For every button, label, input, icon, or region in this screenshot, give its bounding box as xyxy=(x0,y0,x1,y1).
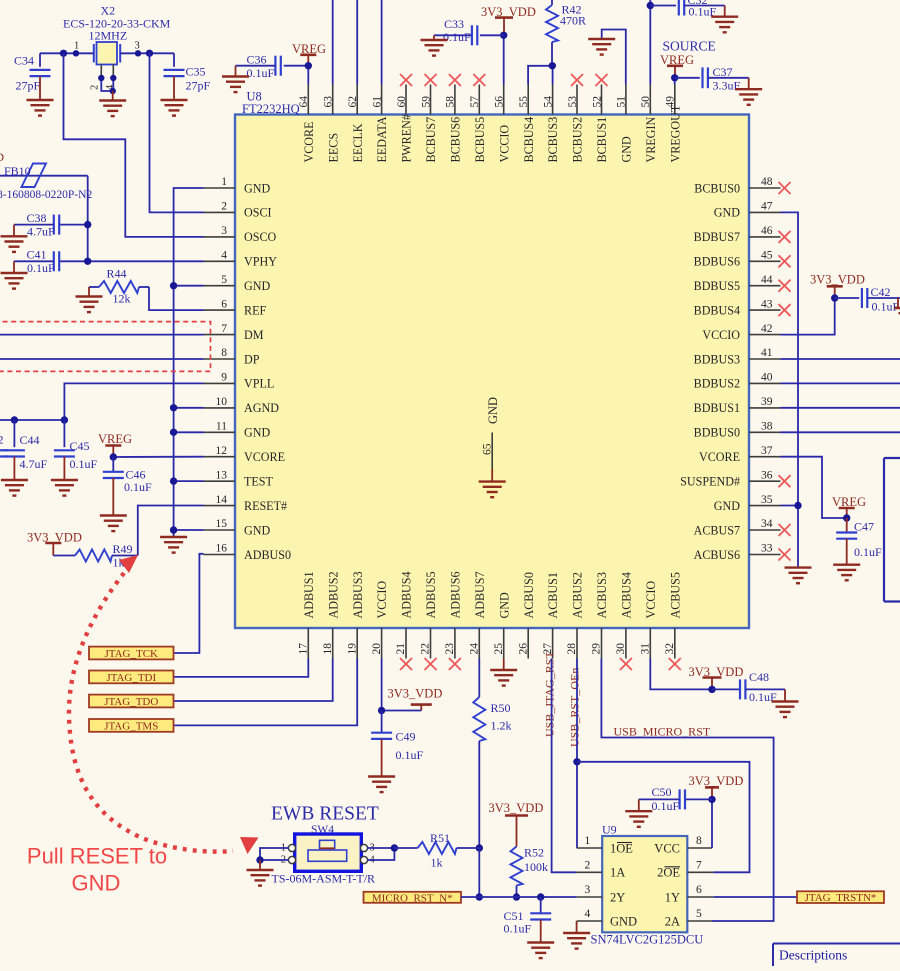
svg-text:C36: C36 xyxy=(247,53,267,67)
svg-text:28: 28 xyxy=(566,643,578,655)
U8 pin 9 VPLL (left) xyxy=(204,372,275,391)
wire U8 pin38 BDBUS0 off right xyxy=(781,431,900,433)
U8 pin 23 ADBUS6 (bottom) xyxy=(444,571,462,670)
svg-text:USB_JTAG_RST: USB_JTAG_RST xyxy=(542,651,556,737)
capacitor C51 0.1uF xyxy=(504,897,552,943)
U8 pin 14 RESET# (left) xyxy=(204,494,288,513)
port JTAG_TCK xyxy=(89,647,174,660)
U9 pin 6 1Y xyxy=(665,884,714,904)
svg-text:5: 5 xyxy=(696,908,702,920)
svg-text:C49: C49 xyxy=(396,730,416,744)
U9 pin 8 VCC xyxy=(654,835,712,855)
wire DM to U8 pin7 xyxy=(0,334,204,336)
power 3V3_VDD (C33) xyxy=(481,5,536,35)
svg-text:0.1uF: 0.1uF xyxy=(443,30,471,44)
capacitor (edge, partial) xyxy=(0,432,8,456)
U8 pin 61 EEDATA (top) xyxy=(371,85,389,163)
svg-text:C47: C47 xyxy=(854,520,874,534)
svg-text:18: 18 xyxy=(322,643,334,655)
svg-text:BDBUS6: BDBUS6 xyxy=(694,255,740,269)
svg-text:VPHY: VPHY xyxy=(244,255,277,269)
svg-text:ACBUS4: ACBUS4 xyxy=(620,572,634,618)
wire crystal left node to C34 xyxy=(40,52,94,54)
red annotation arrow (dotted) xyxy=(69,573,233,852)
U8 pin 26 ACBUS0 (bottom) xyxy=(517,572,535,658)
U8 pin 58 BCBUS6 (top) xyxy=(445,74,463,163)
resistor R44 12k xyxy=(89,267,149,306)
svg-text:42: 42 xyxy=(761,323,773,335)
wire FB10 to pin4 node xyxy=(87,176,89,262)
U8 pin 2 OSCI (left) xyxy=(204,201,272,220)
junction R42/pin54 xyxy=(549,62,556,69)
U8 pin 15 GND (left) xyxy=(204,518,271,537)
port JTAG_TDI xyxy=(89,671,174,684)
wire pin5 GND xyxy=(174,285,204,287)
capacitor C32 0.1uF (top edge) xyxy=(650,0,724,19)
svg-text:1: 1 xyxy=(221,176,227,188)
power 3V3_VDD (C49) xyxy=(382,687,443,711)
svg-text:31: 31 xyxy=(640,643,652,655)
svg-text:BCBUS4: BCBUS4 xyxy=(522,117,536,163)
svg-text:R50: R50 xyxy=(491,701,511,715)
svg-text:USB_MICRO_RST: USB_MICRO_RST xyxy=(614,725,711,739)
svg-text:4.7uF: 4.7uF xyxy=(27,224,55,238)
U8 pin 63 EECS (top) xyxy=(323,85,341,163)
resistor R52 100k xyxy=(511,846,549,898)
junction pin50/C32 xyxy=(647,2,654,9)
U9 pin 7 2OE xyxy=(657,859,713,879)
svg-text:50: 50 xyxy=(640,96,652,108)
wire pin13 TEST xyxy=(174,480,204,482)
U8 pin 46 BDBUS7 (right) xyxy=(694,225,791,244)
svg-text:SUSPEND#: SUSPEND# xyxy=(680,475,740,489)
crystal X2 12MHZ xyxy=(63,4,171,91)
U8 pin 52 BCBUS1 (top) xyxy=(591,74,609,163)
ground (C45) xyxy=(51,480,78,496)
wire 3V3 to U9 pin8 VCC xyxy=(711,799,713,848)
ground (pin 25) xyxy=(490,670,517,686)
ground (U9 pin4) xyxy=(563,933,590,949)
svg-text:34: 34 xyxy=(761,518,773,530)
svg-text:35: 35 xyxy=(761,494,773,506)
wire U8 pin49 VREGOUT to VREG/C37 xyxy=(674,78,676,85)
wire U8 pin16 ADBUS0 to JTAG_TCK xyxy=(174,554,204,653)
U8 pin 6 REF (left) xyxy=(204,298,267,317)
svg-text:VCCIO: VCCIO xyxy=(702,328,740,342)
U8 pin 53 BCBUS2 (top) xyxy=(567,74,585,163)
svg-text:14: 14 xyxy=(216,494,228,506)
svg-text:2A: 2A xyxy=(665,914,680,928)
svg-text:19: 19 xyxy=(346,643,358,655)
wire U8 pin47 GND to right GND bus xyxy=(781,212,799,567)
svg-text:GND: GND xyxy=(610,914,637,928)
svg-text:EECLK: EECLK xyxy=(351,123,365,162)
svg-text:EWB RESET: EWB RESET xyxy=(271,804,379,825)
U8 pin 11 GND (left) xyxy=(204,421,271,440)
svg-text:BDBUS0: BDBUS0 xyxy=(694,426,740,440)
ground (left GND bus) xyxy=(160,537,187,553)
svg-text:C45: C45 xyxy=(70,439,90,453)
svg-text:12k: 12k xyxy=(113,292,131,306)
svg-text:AGND: AGND xyxy=(244,401,279,415)
U8 pin 41 BDBUS3 (right) xyxy=(694,347,781,366)
svg-text:27pF: 27pF xyxy=(186,79,211,93)
svg-text:ADBUS6: ADBUS6 xyxy=(449,571,463,618)
svg-text:3V3_VDD: 3V3_VDD xyxy=(388,687,443,701)
U8 pin 20 VCCIO (bottom) xyxy=(371,581,389,659)
power 3V3_VDD (R49) xyxy=(27,531,82,556)
ground (C42, clipped at edge) xyxy=(895,298,900,324)
svg-text:51: 51 xyxy=(616,96,628,108)
junction VREG/C46 xyxy=(110,453,117,460)
wire U8 pin63 EECS up xyxy=(332,0,334,85)
svg-text:C50: C50 xyxy=(652,785,672,799)
wire U8 pin24 ADBUS7 down xyxy=(478,659,480,698)
junction pin10 xyxy=(170,404,177,411)
svg-text:GND: GND xyxy=(486,397,500,424)
wire crystal pins 2,4 to ground xyxy=(101,78,113,91)
note box (right edge) xyxy=(884,458,900,602)
svg-text:C34: C34 xyxy=(14,54,34,68)
capacitor C42 0.1uF xyxy=(835,285,900,314)
svg-text:16: 16 xyxy=(216,543,228,555)
wire U8 pin29 ACBUS3 to U9 pin5 xyxy=(601,659,773,922)
wire pin10 AGND xyxy=(174,407,204,409)
capacitor C38 4.7uF xyxy=(14,211,88,238)
svg-text:FB10: FB10 xyxy=(4,164,31,178)
svg-text:SW4: SW4 xyxy=(311,824,334,836)
svg-text:BDBUS7: BDBUS7 xyxy=(694,230,740,244)
svg-text:20: 20 xyxy=(371,643,383,655)
junction OEn split xyxy=(573,758,580,765)
power 3V3_VDD (C42) xyxy=(810,273,865,299)
svg-text:C41: C41 xyxy=(27,248,47,262)
svg-text:53: 53 xyxy=(567,96,579,108)
svg-text:EECS: EECS xyxy=(326,133,340,163)
junction 3V3/C33 xyxy=(500,32,507,39)
wire SW4 pins 1,2 to ground xyxy=(260,848,288,860)
U8 pin 35 GND (right) xyxy=(714,494,781,513)
svg-text:41: 41 xyxy=(761,347,773,359)
svg-text:52: 52 xyxy=(591,96,603,108)
svg-text:3.3uF: 3.3uF xyxy=(713,79,741,93)
U8 pin 38 BDBUS0 (right) xyxy=(694,421,781,440)
ferrite bead FB10 xyxy=(0,164,92,202)
wire U8 pin9 VPLL to filter node xyxy=(64,383,203,420)
svg-text:57: 57 xyxy=(469,96,481,108)
wire U8 pin31 VCCIO to 3V3/C48 xyxy=(650,659,712,690)
svg-text:11: 11 xyxy=(216,421,227,433)
wire U8 pin41 BDBUS3 off right xyxy=(781,358,900,360)
svg-text:C33: C33 xyxy=(444,17,464,31)
red dashed USB box xyxy=(0,322,211,372)
svg-text:GND: GND xyxy=(244,279,270,293)
svg-text:BDBUS4: BDBUS4 xyxy=(694,303,740,317)
U8 pin 12 VCORE (left) xyxy=(204,445,286,464)
U8 pin 62 EECLK (top) xyxy=(347,85,365,163)
svg-text:0.1uF: 0.1uF xyxy=(124,480,152,494)
resistor R50 1.2k xyxy=(473,697,511,741)
svg-text:BCBUS6: BCBUS6 xyxy=(449,117,463,163)
svg-text:U9: U9 xyxy=(602,823,617,837)
svg-text:36: 36 xyxy=(761,469,773,481)
svg-text:3V3_VDD: 3V3_VDD xyxy=(689,774,744,788)
svg-text:2: 2 xyxy=(221,201,227,213)
capacitor C49 0.1uF xyxy=(371,711,423,777)
U8 pin 19 ADBUS3 (bottom) xyxy=(346,571,364,658)
svg-text:1: 1 xyxy=(74,41,79,52)
svg-text:21: 21 xyxy=(395,643,407,655)
svg-text:JTAG_TDO: JTAG_TDO xyxy=(104,696,158,708)
junction xtal pin4 xyxy=(110,75,116,81)
svg-text:BCBUS1: BCBUS1 xyxy=(595,117,609,163)
resistor R42 470R xyxy=(546,0,586,66)
IC U8 FT2232HQ xyxy=(235,90,749,629)
svg-text:62: 62 xyxy=(347,96,359,108)
wire pin11 GND xyxy=(174,431,204,433)
wire U8 pin39 BDBUS1 off right xyxy=(781,407,900,409)
power 3V3_VDD (C50) xyxy=(689,774,744,799)
power VREG (C46) xyxy=(98,432,132,457)
ground (C51) xyxy=(527,943,554,959)
svg-text:R49: R49 xyxy=(113,542,133,556)
svg-text:37: 37 xyxy=(761,445,773,457)
svg-text:ADBUS7: ADBUS7 xyxy=(473,571,487,618)
svg-text:9: 9 xyxy=(221,372,227,384)
junction 3V3/C42 xyxy=(831,294,838,301)
svg-text:12MHZ: 12MHZ xyxy=(89,29,128,43)
capacitor C46 0.1uF xyxy=(103,457,152,516)
svg-text:61: 61 xyxy=(371,96,383,108)
svg-text:25: 25 xyxy=(493,643,505,655)
svg-text:GND: GND xyxy=(72,871,121,896)
svg-text:TEST: TEST xyxy=(244,475,274,489)
wire U8 pin27 ACBUS1 to U9 pin2 xyxy=(552,659,577,873)
svg-text:40: 40 xyxy=(761,372,773,384)
U8 pin 43 BDBUS4 (right) xyxy=(694,298,791,317)
junction OSCI tap xyxy=(146,50,153,57)
svg-text:17: 17 xyxy=(298,643,310,655)
svg-text:OSCI: OSCI xyxy=(244,206,272,220)
capacitor C37 3.3uF xyxy=(675,65,749,93)
capacitor C48 0.1uF xyxy=(712,670,785,704)
U8 pin 42 VCCIO (right) xyxy=(702,323,780,342)
svg-text:0.1uF: 0.1uF xyxy=(854,545,882,559)
ground (C33) xyxy=(421,40,448,56)
junction VREG/C47 xyxy=(843,514,850,521)
junction R52/MICRO xyxy=(513,893,520,900)
U9 pin 4 GND xyxy=(577,908,637,928)
svg-text:4.7uF: 4.7uF xyxy=(20,457,48,471)
svg-text:VCCIO: VCCIO xyxy=(497,125,511,163)
U8 pin 8 DP (left) xyxy=(204,347,260,366)
junction pin5 xyxy=(170,282,177,289)
junction C44 xyxy=(11,416,18,423)
svg-text:C35: C35 xyxy=(186,65,206,79)
junction xtal pin2 xyxy=(98,75,104,81)
svg-text:43: 43 xyxy=(761,298,773,310)
ground (pin 65) xyxy=(479,482,506,498)
wire OEn to U9 pin7 xyxy=(577,762,750,873)
svg-text:22: 22 xyxy=(420,643,432,655)
U8 pin 31 VCCIO (bottom) xyxy=(640,581,658,659)
svg-text:ADBUS0: ADBUS0 xyxy=(244,548,291,562)
svg-text:3: 3 xyxy=(585,884,591,896)
ground (C47) xyxy=(833,565,860,581)
wire VPLL node xyxy=(0,419,64,421)
svg-text:ADBUS4: ADBUS4 xyxy=(400,571,414,618)
wire U8 pin54 BCBUS3 to R42 node xyxy=(552,66,554,85)
svg-text:DP: DP xyxy=(244,352,260,366)
U8 pin 24 ADBUS7 (bottom) xyxy=(469,571,487,658)
port MICRO_RST_N* xyxy=(364,892,462,905)
U8 pin 47 GND (right) xyxy=(714,201,781,220)
U8 pin 49 VREGOUT (top) xyxy=(665,85,683,163)
ground (SW4) xyxy=(247,870,274,886)
svg-text:64: 64 xyxy=(298,96,310,108)
svg-text:0.1uF: 0.1uF xyxy=(247,66,275,80)
svg-text:C48: C48 xyxy=(749,670,769,684)
svg-text:GND: GND xyxy=(714,206,740,220)
ground (C44) xyxy=(1,480,28,496)
junction C41/pin4 xyxy=(84,258,91,265)
svg-text:BCBUS7: BCBUS7 xyxy=(424,117,438,163)
U8 pin 3 OSCO (left) xyxy=(204,225,277,244)
svg-text:24: 24 xyxy=(469,643,481,655)
junction R50/R51 xyxy=(476,844,483,851)
U8 pin 7 DM (left) xyxy=(204,323,264,342)
U8 pin 36 SUSPEND# (right) xyxy=(680,469,790,488)
svg-text:1Y: 1Y xyxy=(665,890,680,904)
svg-text:R52: R52 xyxy=(524,846,544,860)
svg-text:C42: C42 xyxy=(871,285,891,299)
port JTAG_TMS xyxy=(89,719,174,732)
svg-text:46: 46 xyxy=(761,225,773,237)
svg-text:26: 26 xyxy=(517,643,529,655)
svg-text:10: 10 xyxy=(216,396,228,408)
svg-text:C38: C38 xyxy=(27,211,47,225)
svg-text:DM: DM xyxy=(244,328,264,342)
svg-text:15: 15 xyxy=(216,518,228,530)
svg-text:SN74LVC2G125DCU: SN74LVC2G125DCU xyxy=(591,933,704,947)
svg-text:2: 2 xyxy=(90,85,101,90)
svg-text:8: 8 xyxy=(696,835,702,847)
wire U8 pin51 GND to ground xyxy=(602,30,626,85)
wire U8 pin61 EEDATA up xyxy=(381,0,383,85)
junction SW4 gnd xyxy=(256,856,263,863)
wire pin15 GND xyxy=(174,529,204,531)
svg-text:VCCIO: VCCIO xyxy=(644,581,658,619)
svg-text:63: 63 xyxy=(323,96,335,108)
svg-text:RESET#: RESET# xyxy=(244,499,287,513)
wire U8 pin18 ADBUS2 to JTAG_TDO xyxy=(174,659,333,702)
svg-text:ACBUS0: ACBUS0 xyxy=(522,572,536,618)
U8 pin 4 VPHY (left) xyxy=(204,250,278,269)
port JTAG_TDO xyxy=(89,695,174,708)
svg-text:30: 30 xyxy=(615,643,627,655)
svg-text:6: 6 xyxy=(696,884,702,896)
U8 pin 30 ACBUS4 (bottom) xyxy=(615,572,633,670)
svg-text:33: 33 xyxy=(761,543,773,555)
wire U8 pin56 VCCIO to 3V3 node xyxy=(503,35,505,84)
capacitor C47 0.1uF xyxy=(836,518,882,565)
U8 pin 64 VCORE (top) xyxy=(298,85,316,163)
svg-text:EEDATA: EEDATA xyxy=(375,116,389,162)
svg-text:VCC: VCC xyxy=(654,841,680,855)
U8 pin 50 VREGIN (top) xyxy=(640,85,658,163)
svg-text:VREGOUT: VREGOUT xyxy=(668,104,682,162)
capacitor C36 0.1uF xyxy=(236,53,281,80)
svg-text:1OE: 1OE xyxy=(610,841,633,855)
svg-text:ACBUS3: ACBUS3 xyxy=(595,572,609,618)
svg-text:BCBUS5: BCBUS5 xyxy=(473,117,487,163)
U8 pin 10 AGND (left) xyxy=(204,396,280,415)
junction VREG/C36 xyxy=(305,62,312,69)
junction pin13 xyxy=(170,477,177,484)
U8 pin 16 ADBUS0 (left) xyxy=(204,543,292,562)
svg-text:3: 3 xyxy=(221,225,227,237)
svg-text:ADBUS2: ADBUS2 xyxy=(326,571,340,618)
svg-text:39: 39 xyxy=(761,396,773,408)
capacitor C33 0.1uF xyxy=(434,17,504,45)
wire crystal right node to C35 xyxy=(120,52,174,54)
junction crystal pin1 xyxy=(73,50,79,56)
svg-text:GND: GND xyxy=(244,181,270,195)
svg-text:5: 5 xyxy=(221,274,227,286)
U8 pin 45 BDBUS6 (right) xyxy=(694,250,791,269)
U8 pin 48 BCBUS0 (right) xyxy=(694,176,790,195)
svg-text:1.2k: 1.2k xyxy=(491,719,512,733)
svg-text:VPLL: VPLL xyxy=(244,377,274,391)
ground (C37) xyxy=(735,89,762,105)
ground (C41) xyxy=(1,273,28,289)
svg-text:VCCIO: VCCIO xyxy=(375,581,389,619)
svg-text:ACBUS5: ACBUS5 xyxy=(668,572,682,618)
svg-text:0.1uF: 0.1uF xyxy=(70,457,98,471)
svg-text:470R: 470R xyxy=(560,14,586,28)
svg-text:0.1uF: 0.1uF xyxy=(504,922,532,936)
svg-text:D: D xyxy=(0,150,4,164)
svg-text:2OE: 2OE xyxy=(657,866,680,880)
svg-text:2: 2 xyxy=(0,432,4,446)
wire R44 to U8 pin6 REF xyxy=(149,287,204,310)
svg-text:BCBUS0: BCBUS0 xyxy=(694,181,740,195)
wire SW4 pins 3,4 to R51 xyxy=(368,848,395,860)
svg-text:55: 55 xyxy=(518,96,530,108)
svg-text:59: 59 xyxy=(420,96,432,108)
junction crystal pin3 xyxy=(135,50,141,56)
U8 pin 65 GND (center pad) xyxy=(481,397,499,482)
svg-text:JTAG_TDI: JTAG_TDI xyxy=(106,672,156,684)
svg-text:60: 60 xyxy=(396,96,408,108)
svg-text:BDBUS5: BDBUS5 xyxy=(694,279,740,293)
svg-text:48: 48 xyxy=(761,176,773,188)
wire U8 pin28 ACBUS2 to U9 pin1 xyxy=(576,659,578,849)
wire U8 pin25 GND to ground xyxy=(503,659,505,671)
arrowhead at SW4 xyxy=(240,837,259,854)
U8 pin 13 TEST (left) xyxy=(204,469,274,488)
wire U8 pin40 BDBUS2 off right xyxy=(781,382,900,384)
wire VREG to U8 pin12 VCORE xyxy=(113,456,203,458)
junction VREG/C37 xyxy=(671,74,678,81)
svg-text:65: 65 xyxy=(481,443,493,455)
wire R50 to R51 node xyxy=(478,741,480,848)
svg-text:OSCO: OSCO xyxy=(244,230,277,244)
ground (right GND bus) xyxy=(785,568,812,584)
wire U8 pin64 VCORE to VREG node xyxy=(284,66,309,85)
U8 pin 44 BDBUS5 (right) xyxy=(694,274,791,293)
U8 pin 59 BCBUS7 (top) xyxy=(420,74,438,163)
